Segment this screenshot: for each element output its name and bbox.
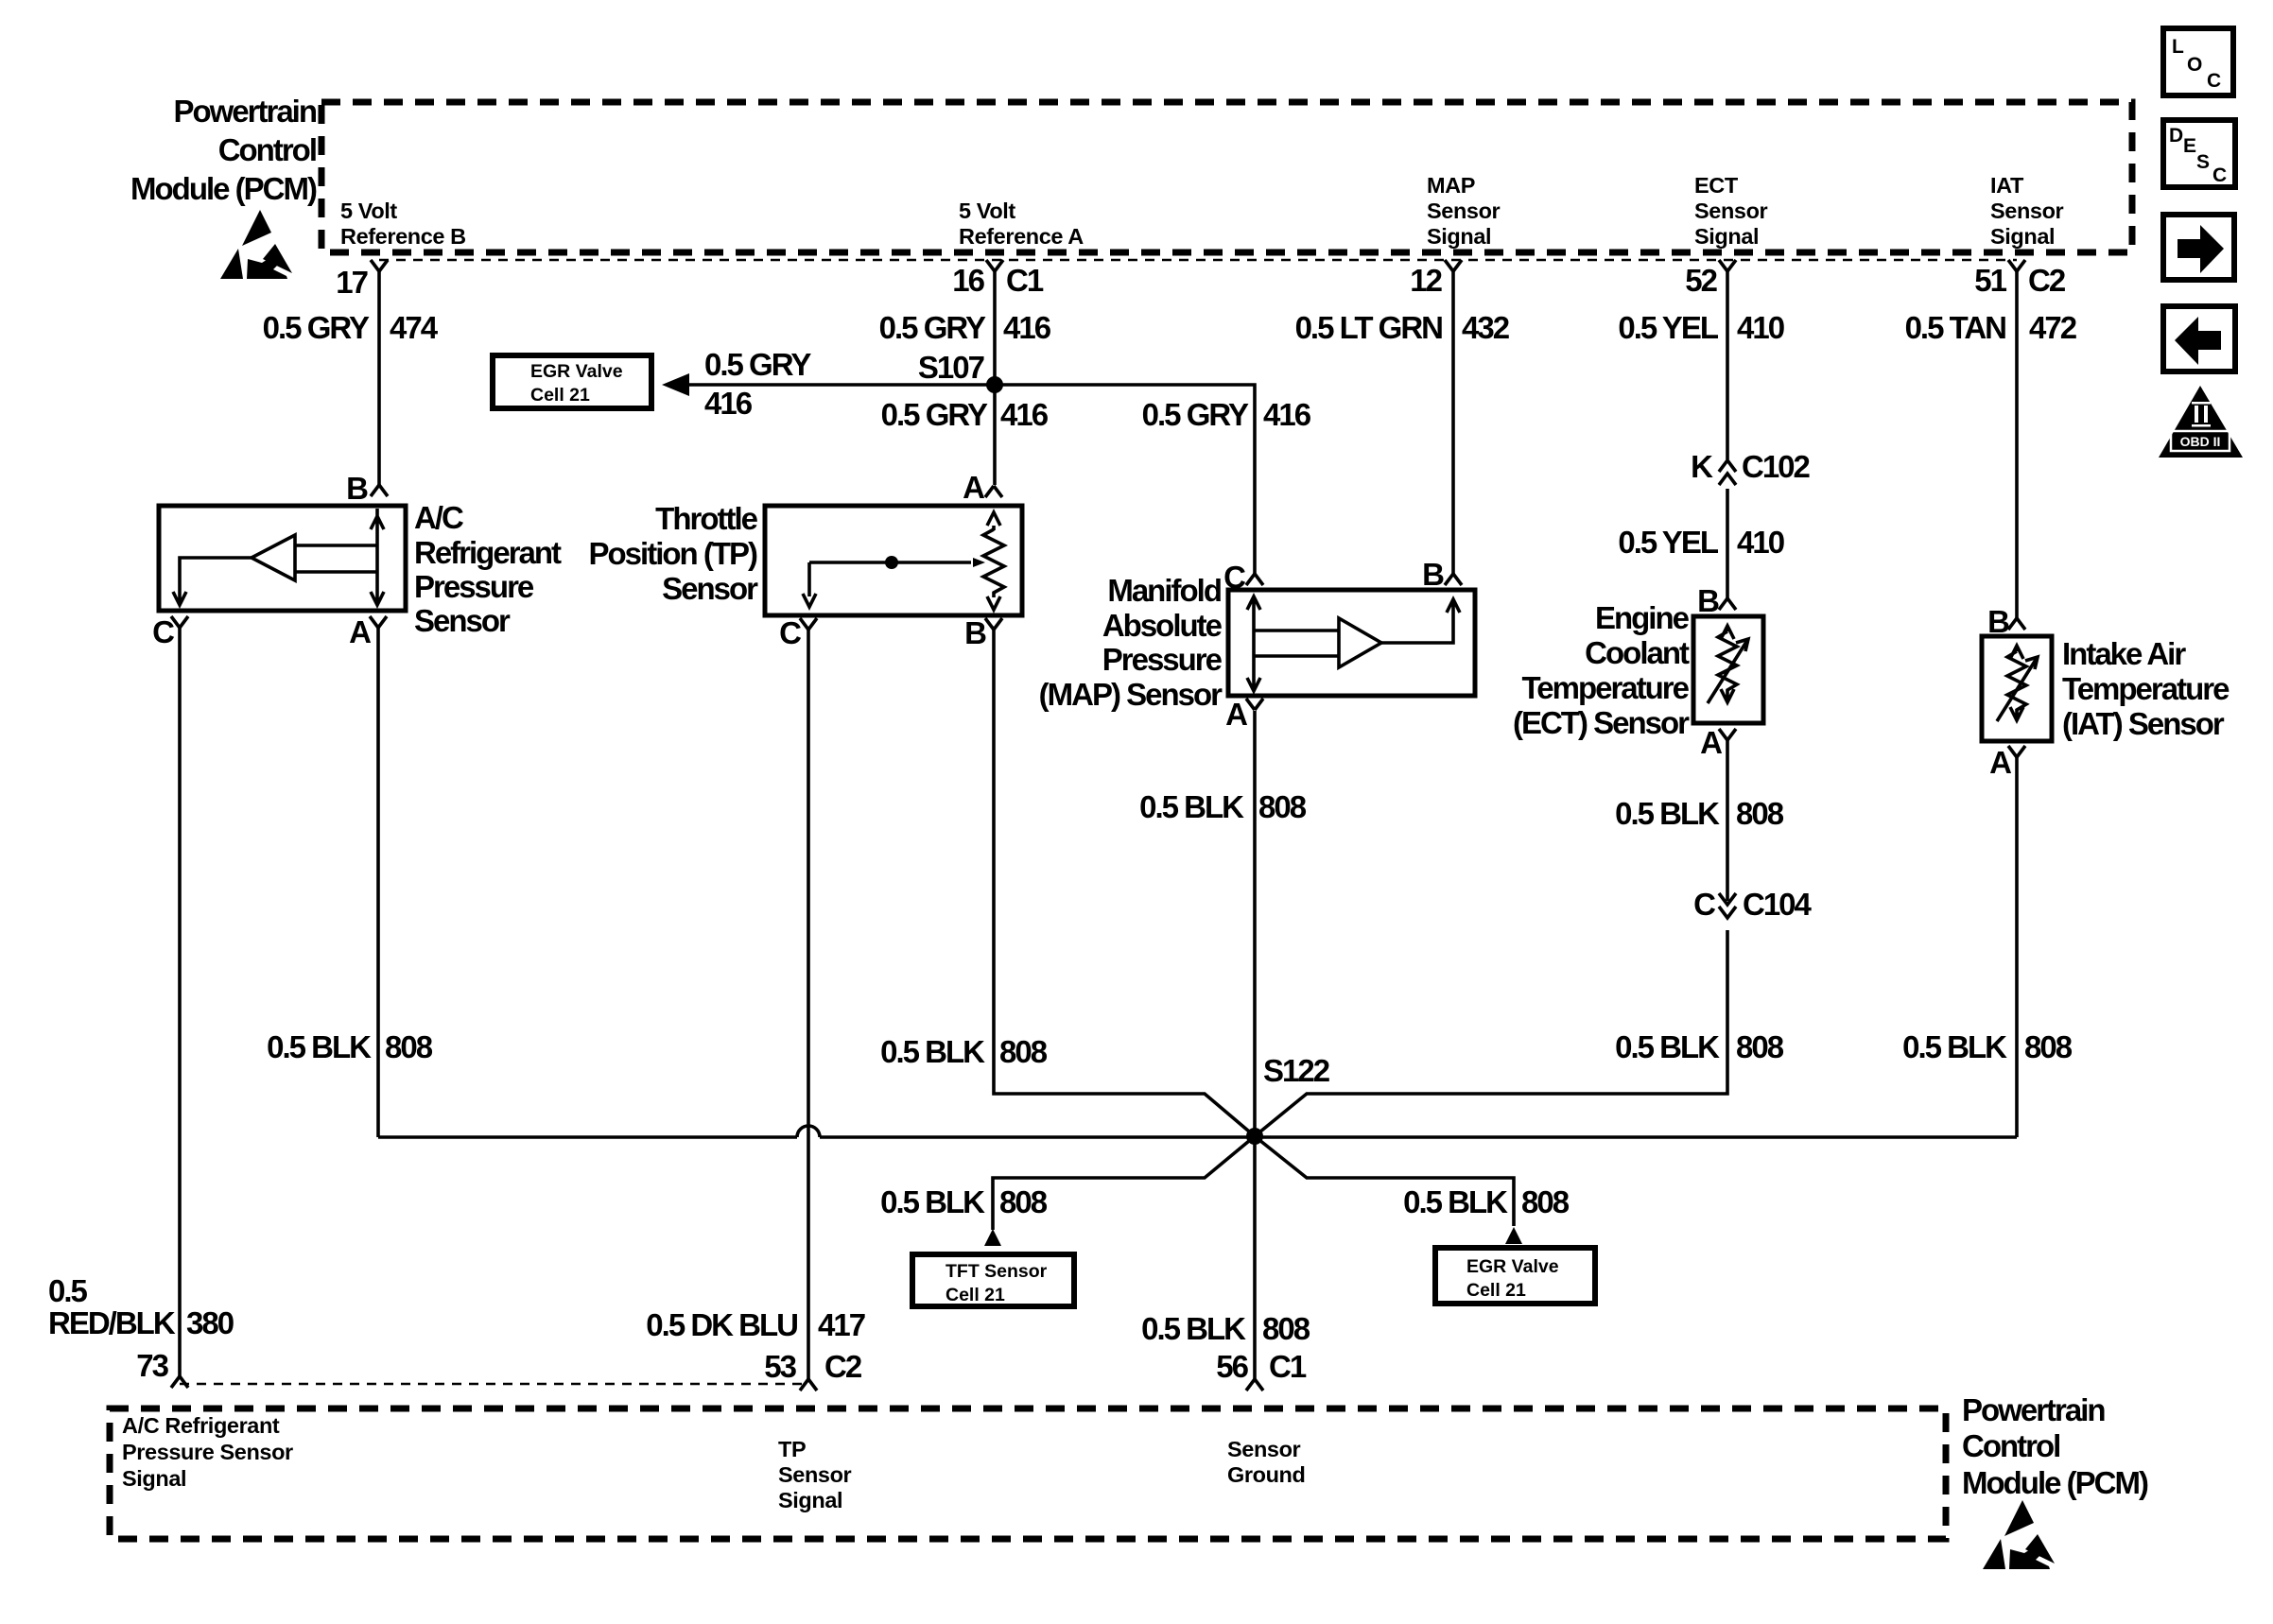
svg-text:808: 808 [2024, 1029, 2073, 1064]
svg-text:Control: Control [1962, 1428, 2059, 1463]
svg-text:Refrigerant: Refrigerant [414, 535, 562, 570]
connector dashed line top (C1/C2) [379, 259, 2017, 262]
pin 53 C2 [764, 1349, 862, 1391]
label 0.5 GRY 474 [263, 310, 439, 345]
wire 0.5 BLK 808 (S122 to TFT Sensor) [993, 1136, 1255, 1230]
svg-text:0.5 GRY: 0.5 GRY [1142, 397, 1249, 432]
svg-text:MAP: MAP [1427, 173, 1475, 198]
svg-text:Signal: Signal [1694, 224, 1759, 249]
svg-text:808: 808 [1736, 1029, 1784, 1064]
svg-text:Cell 21: Cell 21 [530, 385, 590, 406]
svg-text:C2: C2 [2028, 263, 2066, 298]
label 0.5 BLK 808 (IAT ground) [1902, 1029, 2073, 1064]
svg-text:TFT Sensor: TFT Sensor [946, 1261, 1048, 1282]
connector C104 [1693, 887, 1812, 922]
svg-text:808: 808 [999, 1184, 1048, 1219]
label 0.5 GRY 416 on branch [1142, 397, 1311, 432]
svg-text:B: B [1422, 557, 1444, 592]
svg-text:410: 410 [1737, 525, 1784, 560]
svg-text:Signal: Signal [778, 1488, 842, 1512]
svg-text:0.5 GRY: 0.5 GRY [881, 397, 988, 432]
svg-text:Temperature: Temperature [1522, 670, 1690, 705]
svg-text:0.5 BLK: 0.5 BLK [1141, 1311, 1246, 1346]
svg-text:Position (TP): Position (TP) [589, 536, 757, 571]
arrow to TFT Sensor [984, 1229, 1001, 1246]
label Throttle Position (TP) Sensor [589, 501, 759, 606]
label TP Sensor Signal [778, 1437, 852, 1512]
svg-text:73: 73 [136, 1348, 168, 1383]
EGR Valve Cell 21 box (top) [493, 355, 651, 408]
label A/C Refrigerant Pressure Sensor Signal [122, 1413, 293, 1491]
forward arrow icon [2163, 215, 2234, 280]
splice S122 [1246, 1053, 1330, 1145]
svg-text:0.5 GRY: 0.5 GRY [704, 347, 811, 382]
arrow to EGR Valve [1505, 1227, 1522, 1244]
label 0.5 BLK 808 (EGR branch) [1403, 1184, 1570, 1219]
Intake Air Temperature Sensor U5 [1982, 636, 2052, 741]
svg-text:808: 808 [1521, 1184, 1570, 1219]
label A/C Refrigerant Pressure Sensor [414, 500, 562, 638]
svg-text:S: S [2196, 151, 2210, 173]
svg-text:TP: TP [778, 1437, 806, 1461]
pin B (IAT) [1987, 604, 2025, 639]
svg-text:416: 416 [704, 386, 753, 421]
label 0.5 GRY / 416 (EGR branch) [704, 347, 811, 421]
ESD symbol top [220, 210, 292, 279]
svg-text:EGR Valve: EGR Valve [530, 361, 623, 382]
svg-text:Pressure: Pressure [1102, 642, 1223, 677]
svg-text:Powertrain: Powertrain [1962, 1392, 2105, 1427]
wire 0.5 DK BLU 417 (TP C to pin 53) [807, 630, 810, 1379]
svg-text:0.5 BLK: 0.5 BLK [1615, 796, 1720, 831]
svg-text:A: A [963, 470, 984, 505]
Throttle Position Sensor U2 [765, 506, 1022, 615]
pin 16 C1 [952, 260, 1044, 298]
wire 0.5 YEL 410 (C102 to ECT B) [1726, 489, 1729, 598]
svg-text:Control: Control [218, 132, 316, 167]
svg-text:52: 52 [1685, 263, 1717, 298]
svg-text:C2: C2 [824, 1349, 862, 1384]
svg-text:Pressure: Pressure [414, 569, 534, 604]
ground bus wire (S122 horizontal) [378, 1126, 2017, 1137]
pin A (IAT) [1989, 745, 2025, 780]
svg-text:Sensor: Sensor [778, 1462, 852, 1487]
label 5 Volt Reference A [959, 199, 1084, 249]
svg-text:416: 416 [1003, 310, 1051, 345]
svg-text:Cell 21: Cell 21 [1466, 1280, 1526, 1301]
svg-text:Pressure Sensor: Pressure Sensor [122, 1440, 293, 1464]
PCM top dashed box [321, 102, 2132, 252]
svg-text:0.5 BLK: 0.5 BLK [1615, 1029, 1720, 1064]
svg-text:Signal: Signal [1990, 224, 2055, 249]
pin B (MAP) [1422, 557, 1462, 592]
label 0.5 BLK 808 (ECT lower) [1615, 1029, 1784, 1064]
svg-text:(ECT) Sensor: (ECT) Sensor [1513, 705, 1690, 740]
pin C (TP) [779, 615, 817, 650]
svg-text:ECT: ECT [1694, 173, 1739, 198]
wire 0.5 BLK 808 (TP B to S122) [994, 630, 1255, 1136]
svg-text:Cell 21: Cell 21 [946, 1285, 1005, 1305]
label 0.5 BLK 808 (TFT branch) [880, 1184, 1048, 1219]
svg-text:RED/BLK: RED/BLK [48, 1305, 176, 1340]
svg-text:Temperature: Temperature [2062, 671, 2230, 706]
wire 0.5 GRY 416 (S107 to EGR Valve arrow) [662, 373, 995, 396]
svg-text:S122: S122 [1263, 1053, 1330, 1088]
svg-text:EGR Valve: EGR Valve [1466, 1256, 1559, 1277]
svg-text:0.5 DK BLU: 0.5 DK BLU [646, 1307, 797, 1342]
OBD II symbol [2159, 386, 2243, 458]
svg-text:Sensor: Sensor [1227, 1437, 1301, 1461]
svg-text:C: C [2207, 70, 2221, 92]
svg-text:432: 432 [1462, 310, 1510, 345]
svg-text:A: A [349, 614, 371, 649]
svg-text:808: 808 [385, 1029, 433, 1064]
svg-text:0.5 GRY: 0.5 GRY [879, 310, 986, 345]
pin B (TP) [964, 615, 1002, 650]
label 0.5 TAN 472 [1905, 310, 2077, 345]
Manifold Absolute Pressure Sensor U3 [1228, 590, 1475, 696]
svg-text:0.5 YEL: 0.5 YEL [1618, 525, 1718, 560]
svg-text:5 Volt: 5 Volt [959, 199, 1015, 223]
svg-text:S107: S107 [918, 350, 984, 385]
svg-text:17: 17 [336, 265, 367, 300]
wire 0.5 LT GRN 432 (pin 12 to MAP B) [1451, 271, 1455, 574]
svg-text:0.5 BLK: 0.5 BLK [1403, 1184, 1508, 1219]
svg-text:IAT: IAT [1990, 173, 2024, 198]
wire 0.5 BLK 808 (S122 to EGR Valve) [1255, 1136, 1514, 1226]
wire 0.5 BLK 808 (C104 to S122) [1255, 930, 1727, 1136]
label 0.5 BLK 808 (MAP ground) [1139, 789, 1307, 824]
label 0.5 RED/BLK 380 [48, 1273, 234, 1340]
wire 0.5 BLK 808 (ECT A to C104) [1726, 740, 1729, 901]
svg-text:Sensor: Sensor [1694, 199, 1768, 223]
svg-text:D: D [2169, 125, 2183, 147]
svg-text:C: C [1223, 560, 1245, 595]
svg-text:Module (PCM): Module (PCM) [1962, 1465, 2148, 1500]
pin C (MAP) [1223, 560, 1263, 595]
wire 0.5 TAN 472 (pin 51 to IAT B) [2015, 271, 2019, 618]
EGR Valve Cell 21 box (bottom) [1435, 1248, 1595, 1304]
LOC icon [2163, 28, 2233, 95]
svg-text:5 Volt: 5 Volt [340, 199, 397, 223]
label IAT Sensor Signal [1990, 173, 2064, 249]
svg-text:Sensor: Sensor [1990, 199, 2064, 223]
svg-text:808: 808 [999, 1034, 1048, 1069]
label 0.5 BLK 808 (A/C ground) [267, 1029, 433, 1064]
svg-text:12: 12 [1410, 263, 1442, 298]
Engine Coolant Temperature Sensor U4 [1693, 616, 1763, 723]
svg-text:C1: C1 [1006, 263, 1044, 298]
connector C102 [1691, 449, 1810, 485]
svg-text:Reference A: Reference A [959, 224, 1084, 249]
svg-text:Manifold: Manifold [1107, 573, 1221, 608]
TFT Sensor Cell 21 box [912, 1254, 1074, 1306]
label 0.5 YEL 410 [1618, 310, 1783, 345]
svg-text:Coolant: Coolant [1585, 635, 1690, 670]
svg-text:0.5 GRY: 0.5 GRY [263, 310, 370, 345]
pin 52 [1685, 260, 1736, 298]
svg-text:808: 808 [1736, 796, 1784, 831]
wire 0.5 GRY 474 (pin 17 to A/C B) [377, 271, 381, 485]
label Sensor Ground [1227, 1437, 1305, 1487]
wire 0.5 BLK 808 (IAT A to ground bus) [2015, 757, 2019, 1137]
label 0.5 GRY 416 below S107 [881, 397, 1049, 432]
svg-text:0.5 YEL: 0.5 YEL [1618, 310, 1718, 345]
wire 0.5 RED/BLK 380 (A/C C to pin 73) [178, 628, 182, 1376]
svg-text:O: O [2187, 54, 2202, 76]
svg-text:51: 51 [1974, 263, 2006, 298]
svg-text:410: 410 [1737, 310, 1784, 345]
node S107 [918, 350, 1003, 393]
svg-text:0.5 BLK: 0.5 BLK [1902, 1029, 2007, 1064]
pin 56 C1 [1216, 1349, 1307, 1391]
svg-text:Intake Air: Intake Air [2062, 636, 2186, 671]
label 0.5 YEL 410 below C102 [1618, 525, 1783, 560]
svg-text:Sensor: Sensor [414, 603, 511, 638]
svg-text:0.5 TAN: 0.5 TAN [1905, 310, 2006, 345]
connector dashed line bottom (C2) [180, 1383, 802, 1386]
label Engine Coolant Temperature (ECT) Sensor [1513, 600, 1690, 740]
svg-text:A: A [1700, 725, 1722, 760]
svg-text:Reference B: Reference B [340, 224, 466, 249]
svg-text:C: C [779, 615, 801, 650]
svg-text:OBD II: OBD II [2180, 434, 2221, 449]
A/C Refrigerant Pressure Sensor U1 [159, 506, 406, 611]
svg-text:808: 808 [1258, 789, 1307, 824]
label 0.5 BLK 808 (sensor ground at pin 56) [1141, 1311, 1310, 1346]
svg-text:K: K [1691, 449, 1713, 484]
svg-text:0.5 BLK: 0.5 BLK [880, 1034, 985, 1069]
ESD symbol bottom [1983, 1500, 2055, 1569]
back arrow icon [2163, 306, 2235, 371]
svg-text:(MAP) Sensor: (MAP) Sensor [1039, 677, 1223, 712]
label 0.5 BLK 808 (TP ground) [880, 1034, 1048, 1069]
svg-text:0.5: 0.5 [48, 1273, 88, 1308]
wire 0.5 BLK 808 (A/C A to ground bus) [376, 628, 380, 1137]
svg-text:C1: C1 [1269, 1349, 1307, 1384]
svg-text:Sensor: Sensor [1427, 199, 1501, 223]
svg-text:A/C: A/C [414, 500, 463, 535]
pin B (A/C) [346, 471, 388, 506]
svg-text:0.5 BLK: 0.5 BLK [880, 1184, 985, 1219]
PCM bottom dashed box [110, 1408, 1946, 1539]
svg-text:0.5 BLK: 0.5 BLK [267, 1029, 372, 1064]
svg-text:808: 808 [1262, 1311, 1310, 1346]
svg-text:Throttle: Throttle [655, 501, 757, 536]
pin A (MAP) [1225, 697, 1263, 732]
svg-text:0.5 BLK: 0.5 BLK [1139, 789, 1244, 824]
svg-text:C104: C104 [1743, 887, 1813, 922]
svg-text:0.5 LT GRN: 0.5 LT GRN [1295, 310, 1443, 345]
wire 0.5 GRY 416 (S107 to MAP C) [995, 385, 1255, 574]
pin 73 [136, 1348, 188, 1388]
label 0.5 GRY 416 below pin 16 [879, 310, 1051, 345]
svg-text:417: 417 [818, 1307, 865, 1342]
label Manifold Absolute Pressure (MAP) Sensor [1039, 573, 1223, 712]
svg-text:416: 416 [1263, 397, 1311, 432]
svg-text:C102: C102 [1742, 449, 1811, 484]
label MAP Sensor Signal [1427, 173, 1501, 249]
svg-text:L: L [2172, 36, 2184, 58]
pin 12 [1410, 260, 1462, 298]
svg-text:416: 416 [1000, 397, 1049, 432]
svg-text:B: B [964, 615, 986, 650]
svg-text:16: 16 [952, 263, 984, 298]
wire 0.5 GRY 416 (pin 16 through S107 to TP A) [993, 271, 997, 485]
svg-text:474: 474 [390, 310, 439, 345]
svg-text:C: C [1693, 887, 1715, 922]
label 0.5 LT GRN 432 [1295, 310, 1510, 345]
wire 0.5 BLK 808 (MAP A through S122 to pin 56) [1253, 711, 1257, 1379]
svg-text:Absolute: Absolute [1102, 608, 1223, 643]
svg-text:B: B [1697, 583, 1719, 618]
pin B (ECT) [1697, 583, 1736, 618]
pin A (ECT) [1700, 725, 1736, 760]
label Powertrain Control Module (PCM) bottom-right [1962, 1392, 2148, 1500]
label ECT Sensor Signal [1694, 173, 1768, 249]
svg-text:Module (PCM): Module (PCM) [130, 171, 317, 206]
svg-text:A/C Refrigerant: A/C Refrigerant [122, 1413, 280, 1438]
svg-text:Ground: Ground [1227, 1462, 1305, 1487]
svg-text:Powertrain: Powertrain [173, 94, 316, 129]
label 0.5 BLK 808 (ECT upper) [1615, 796, 1784, 831]
svg-text:Sensor: Sensor [662, 571, 758, 606]
DESC icon [2163, 120, 2235, 187]
svg-text:380: 380 [186, 1305, 234, 1340]
pin 17 [336, 260, 388, 300]
svg-text:E: E [2183, 135, 2196, 157]
svg-text:56: 56 [1216, 1349, 1248, 1384]
svg-text:Signal: Signal [1427, 224, 1491, 249]
svg-text:C: C [152, 614, 174, 649]
svg-text:Signal: Signal [122, 1466, 186, 1491]
svg-text:A: A [1225, 697, 1247, 732]
svg-text:472: 472 [2029, 310, 2077, 345]
svg-text:A: A [1989, 745, 2011, 780]
svg-text:Engine: Engine [1595, 600, 1690, 635]
pin C (A/C) [152, 614, 188, 649]
label Powertrain Control Module (PCM) top-left [130, 94, 317, 206]
pin A (TP) [963, 470, 1002, 505]
svg-text:C: C [2212, 164, 2227, 186]
pin A (A/C) [349, 614, 387, 649]
svg-text:(IAT) Sensor: (IAT) Sensor [2062, 706, 2225, 741]
label 0.5 DK BLU 417 [646, 1307, 864, 1342]
svg-text:B: B [346, 471, 368, 506]
label 5 Volt Reference B [340, 199, 466, 249]
pin 51 C2 [1974, 260, 2066, 298]
svg-text:B: B [1987, 604, 2009, 639]
svg-text:53: 53 [764, 1349, 796, 1384]
label Intake Air Temperature (IAT) Sensor [2062, 636, 2230, 741]
wire 0.5 YEL 410 (pin 52 to C102) [1726, 271, 1729, 459]
